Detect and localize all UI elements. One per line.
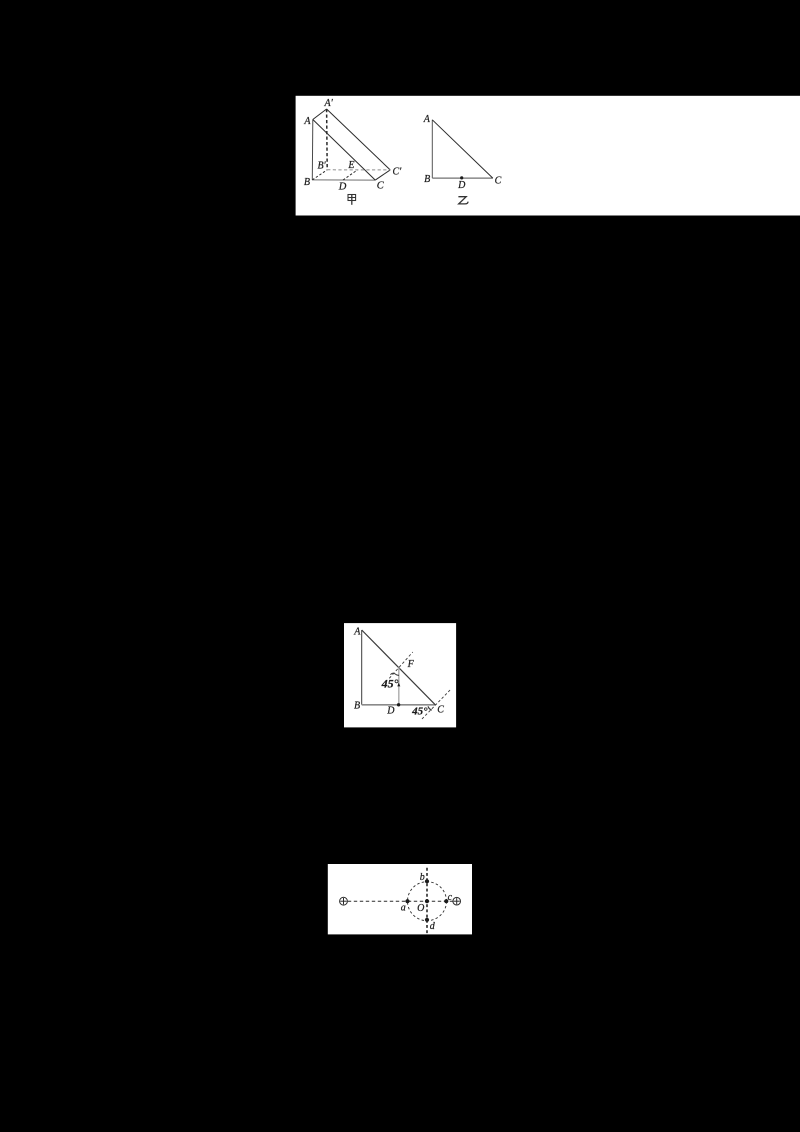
- svg-text:F: F: [407, 659, 415, 670]
- svg-text:A′: A′: [324, 98, 334, 109]
- dashed line through F: [389, 652, 413, 678]
- point d: [425, 918, 429, 922]
- svg-text:A: A: [303, 116, 311, 127]
- point D (fig2): [397, 703, 400, 706]
- svg-text:A: A: [423, 114, 431, 125]
- hidden segment DE: [343, 170, 357, 180]
- edge AC (fig2): [362, 630, 436, 705]
- svg-text:B′: B′: [317, 160, 326, 171]
- panel 1 white strip: [296, 96, 800, 216]
- angle arc at F: [390, 673, 399, 675]
- svg-text:O: O: [417, 903, 424, 914]
- edge AB: [311, 120, 314, 180]
- panel 2 white box: [344, 623, 456, 727]
- segment DF: [398, 667, 400, 704]
- svg-text:C′: C′: [392, 166, 402, 177]
- svg-text:45°: 45°: [381, 676, 399, 690]
- svg-text:B: B: [424, 174, 430, 185]
- edge BC (fig2): [362, 704, 436, 706]
- svg-text:45°: 45°: [411, 706, 428, 718]
- svg-text:D: D: [386, 706, 395, 717]
- right circled plus: [453, 897, 461, 905]
- hidden edge B'C': [327, 169, 390, 171]
- dashed circle O: [408, 882, 447, 921]
- dashed vertical axis: [426, 868, 428, 934]
- character yi: [458, 197, 468, 204]
- svg-text:a: a: [401, 902, 406, 913]
- point b: [425, 879, 429, 883]
- dashed line through C: [422, 689, 451, 719]
- hidden edge A'B': [326, 109, 329, 170]
- panel 3 white box: [328, 864, 472, 934]
- edge AB (yi): [431, 120, 433, 178]
- edge BC: [312, 179, 375, 181]
- point O: [425, 899, 429, 903]
- character jia: [348, 195, 356, 205]
- arrowhead on DF: [397, 683, 400, 687]
- edge CA (yi): [432, 120, 493, 178]
- svg-text:B: B: [304, 177, 310, 188]
- svg-text:C: C: [495, 175, 502, 186]
- svg-text:C: C: [377, 181, 385, 192]
- dashed horizontal axis: [348, 900, 453, 902]
- svg-text:D: D: [338, 182, 347, 193]
- svg-text:E: E: [347, 160, 354, 171]
- point c: [444, 899, 448, 903]
- svg-text:A: A: [353, 627, 361, 638]
- svg-text:D: D: [457, 180, 466, 191]
- edge CC': [375, 170, 390, 180]
- angle arc at C: [428, 706, 432, 710]
- point D (yi): [460, 176, 463, 179]
- edge C'A': [327, 109, 391, 170]
- hidden edge BB': [312, 170, 327, 180]
- edge BC (yi): [432, 177, 493, 179]
- svg-text:b: b: [420, 872, 425, 883]
- svg-text:c: c: [448, 892, 453, 903]
- edge AC: [313, 120, 376, 181]
- left circled plus: [340, 897, 348, 905]
- svg-text:C: C: [437, 704, 444, 715]
- edge AB (fig2): [361, 630, 363, 705]
- svg-text:B: B: [354, 701, 360, 712]
- edge A'A: [313, 109, 327, 120]
- point a: [405, 899, 409, 903]
